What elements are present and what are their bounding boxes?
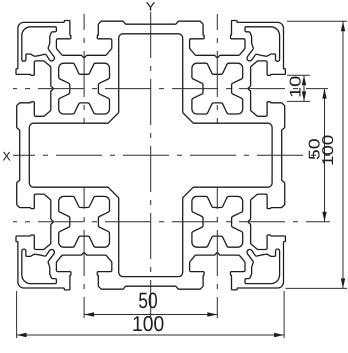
centerline upper quadrant [13,88,328,90]
central plus-shaped cavity [29,34,272,277]
dim 10 extension lines [287,74,310,76]
centerline right quadrant bottom [216,187,218,318]
centerline right quadrant top [216,14,218,124]
bottom-right core screw-channel cavity [192,196,243,247]
dim 10 line [303,75,305,101]
top-right core screw-channel cavity [192,63,243,114]
profile outer boundary [16,21,285,290]
centerline X axis [13,154,330,156]
dim 100 right text [322,136,333,165]
dim 100 right extension [287,20,347,22]
centerline Y axis [150,12,152,318]
centerline lower quadrant [13,221,330,223]
bottom-right corner cavity [245,249,280,284]
label Y [146,2,155,11]
dim 50 right text [309,139,320,159]
top-left core screw-channel cavity [59,63,110,114]
centerline left quadrant bottom [83,187,85,318]
dim 100 bottom line [17,334,285,336]
dim 100 right line [342,21,344,288]
label X [3,152,11,161]
centerline left quadrant top [83,14,85,124]
bottom-left corner cavity [22,249,57,284]
dim 50 right line [324,89,326,222]
dim 100 bottom text [133,316,163,331]
dim 10 text [290,77,301,97]
top-right corner cavity [245,27,280,62]
dim 50 bottom text [139,292,157,308]
dim 100 bottom extension [16,291,18,338]
bottom-left core screw-channel cavity [59,196,110,247]
top-left corner cavity [22,27,57,62]
dim 50 bottom line [84,314,217,316]
